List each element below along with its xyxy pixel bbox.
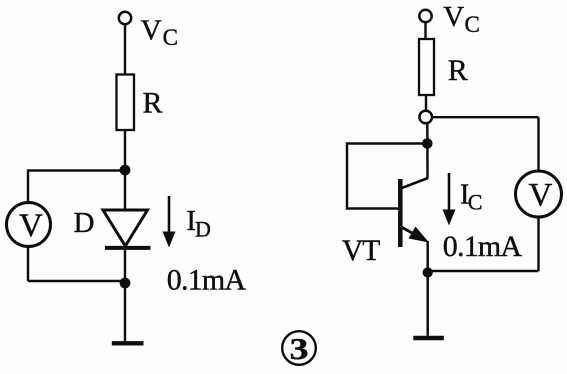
svg-text:0.1mA: 0.1mA [443,230,523,263]
svg-text:R: R [143,87,163,120]
svg-text:D: D [195,217,211,242]
svg-text:V: V [141,15,162,47]
svg-text:R: R [448,54,468,87]
svg-text:V: V [529,177,553,213]
svg-text:C: C [468,190,483,215]
svg-text:D: D [74,207,95,239]
svg-text:3: 3 [290,331,309,366]
svg-text:V: V [19,208,43,244]
svg-text:V: V [443,1,464,33]
svg-text:C: C [465,12,480,37]
svg-text:C: C [163,25,178,50]
svg-text:VT: VT [342,235,380,267]
svg-text:0.1mA: 0.1mA [167,264,247,297]
